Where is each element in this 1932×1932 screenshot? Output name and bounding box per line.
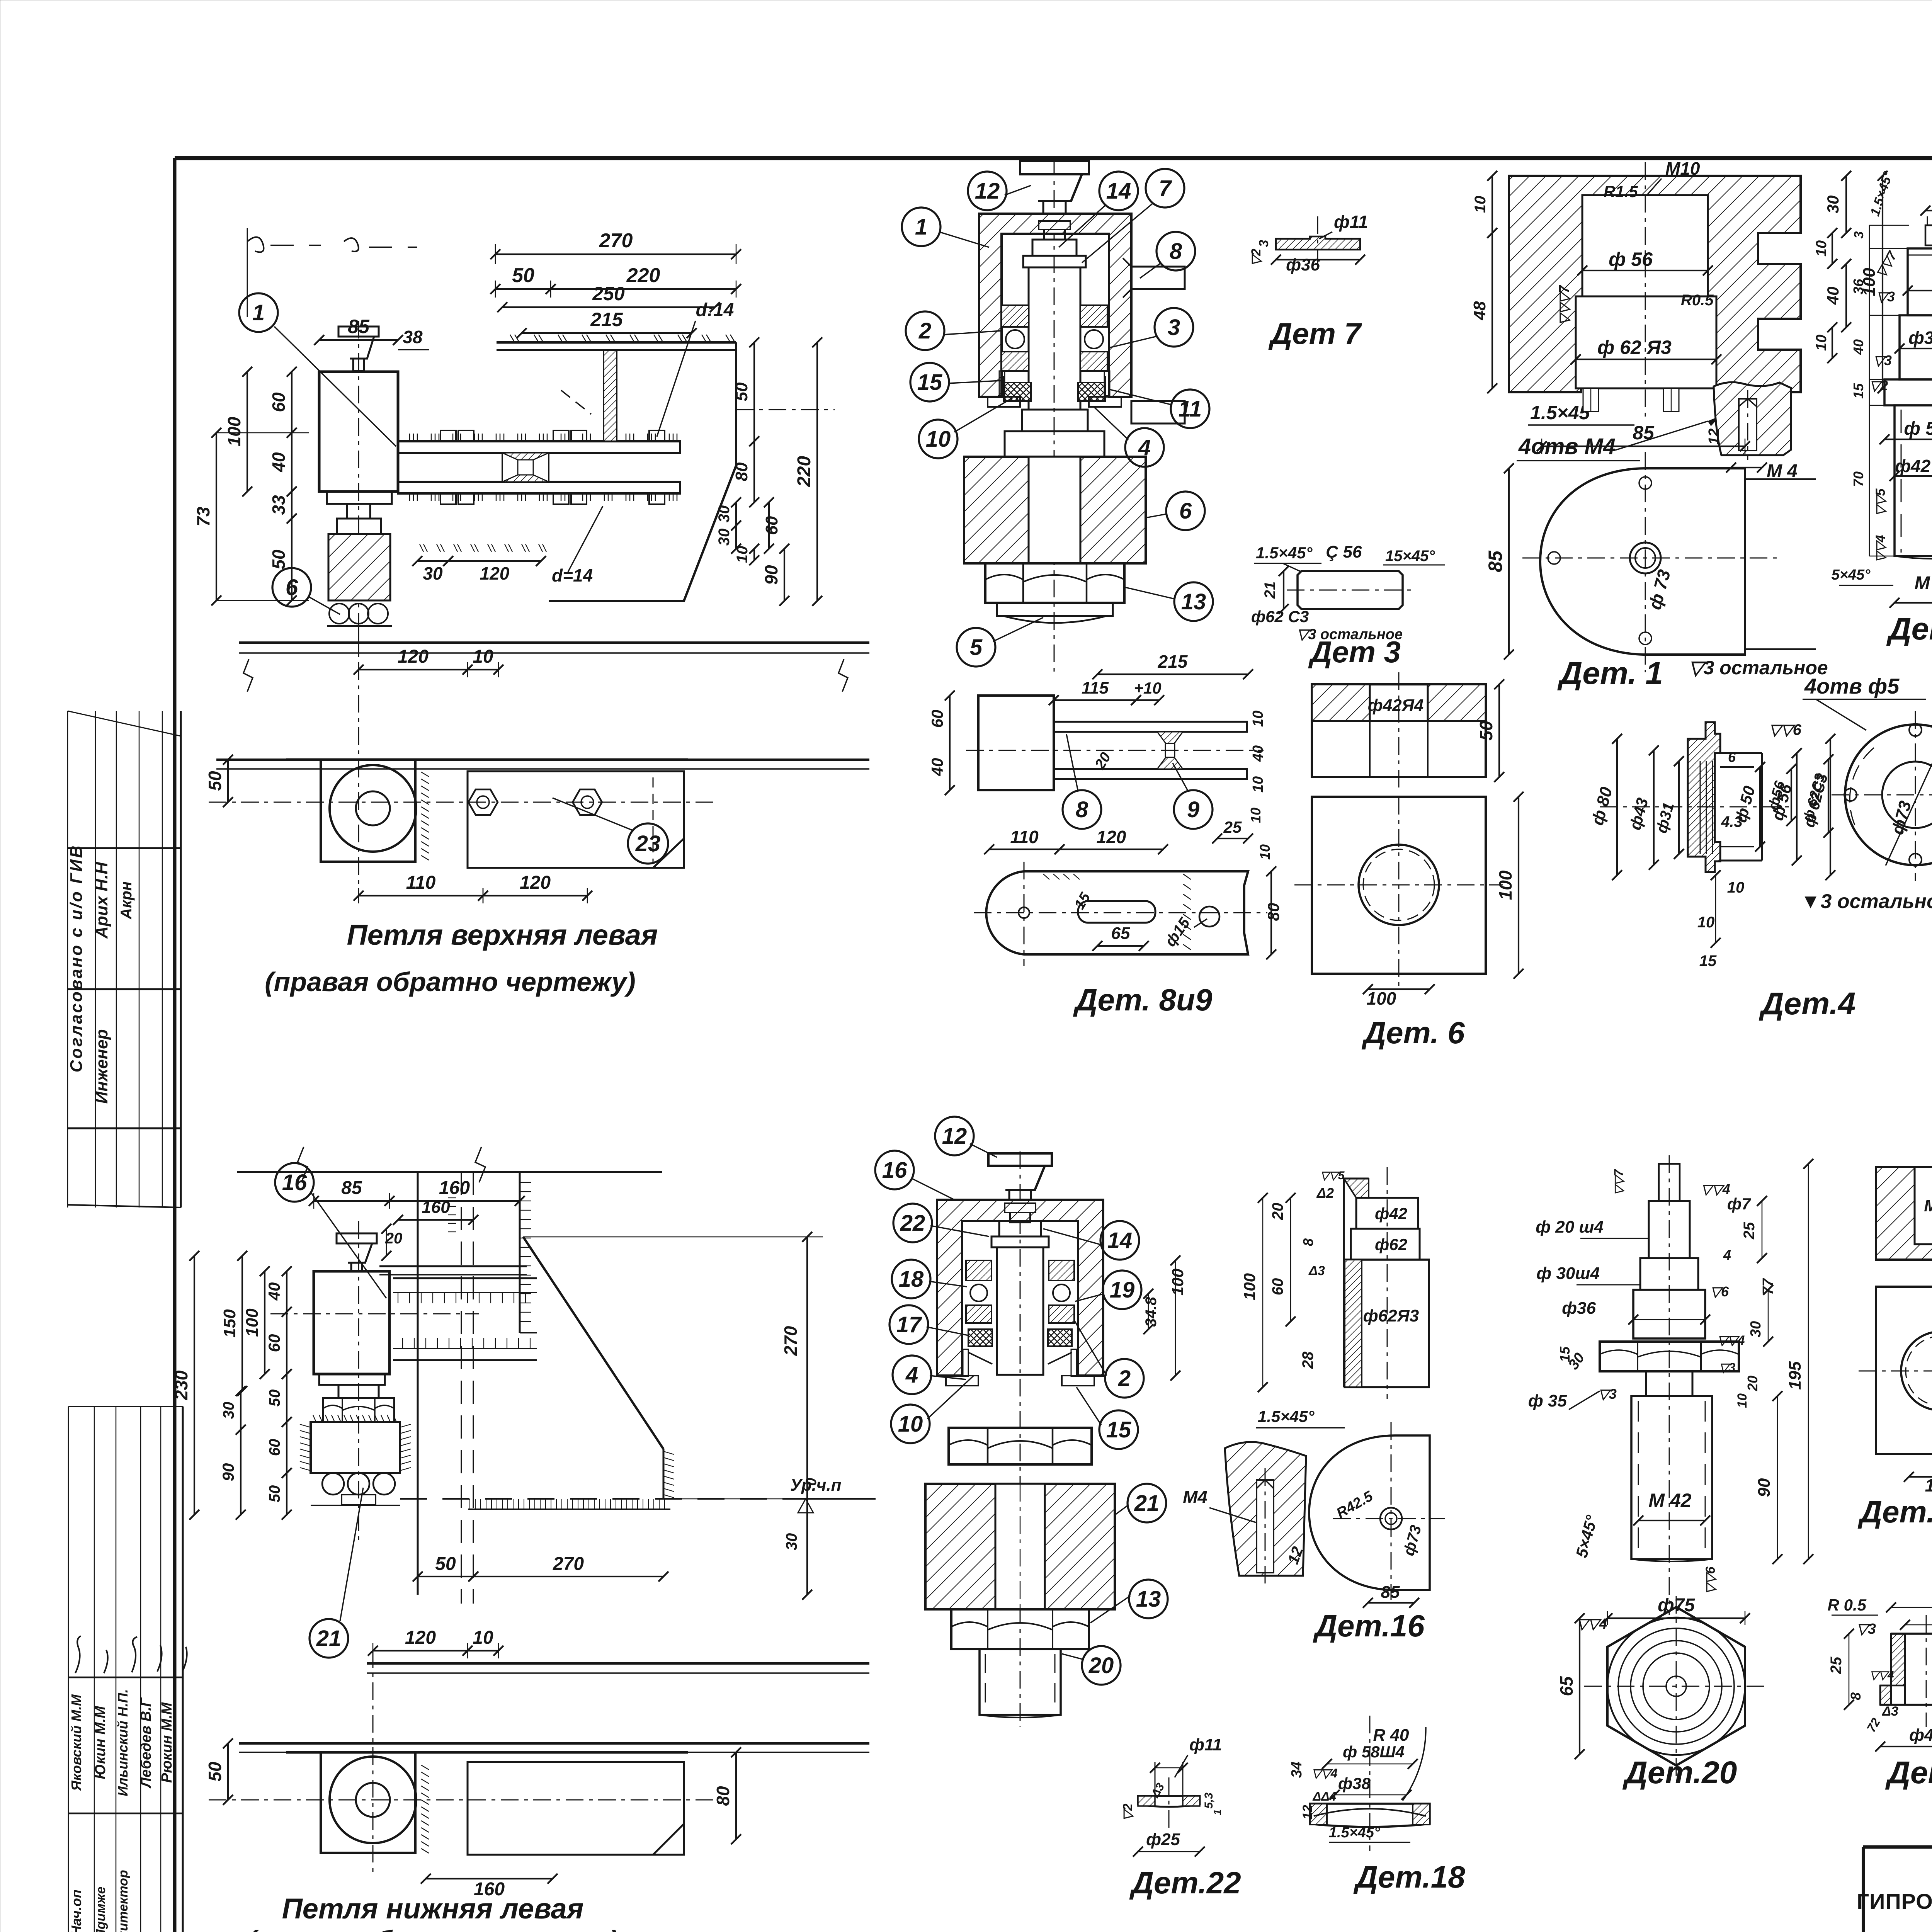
callout 21 <box>310 1619 348 1658</box>
svg-text:30: 30 <box>716 529 733 546</box>
rail weld ticks <box>410 434 677 501</box>
view: part Дет.21 nut section <box>1876 1167 1932 1260</box>
svg-text:▽3: ▽3 <box>1876 289 1895 304</box>
svg-text:34.8: 34.8 <box>1143 1296 1160 1327</box>
svg-text:40: 40 <box>1250 745 1266 762</box>
svg-text:ф36: ф36 <box>1908 328 1932 348</box>
svg-text:30: 30 <box>783 1533 800 1551</box>
svg-text:▽3: ▽3 <box>1719 1361 1736 1374</box>
ф56 dim <box>1582 270 1708 271</box>
svg-text:Арих Н.Н: Арих Н.Н <box>92 862 111 939</box>
right dim 270 vertical <box>523 1232 823 1600</box>
svg-text:10: 10 <box>473 646 493 667</box>
svg-text:Петля нижняя левая: Петля нижняя левая <box>282 1893 584 1925</box>
svg-text:30: 30 <box>1824 196 1842 214</box>
callout 2b <box>1105 1359 1144 1398</box>
callout 15b <box>1099 1410 1138 1449</box>
ф20 section <box>1649 1201 1690 1258</box>
grooves <box>1700 761 1713 854</box>
svg-text:60: 60 <box>266 1439 283 1456</box>
floor level dashed line <box>400 1498 876 1500</box>
hex flange ф35 <box>1600 1342 1739 1371</box>
svg-text:15: 15 <box>1699 952 1717 969</box>
svg-text:160: 160 <box>439 1178 470 1198</box>
svg-text:215: 215 <box>1158 651 1188 672</box>
rails <box>393 1278 537 1360</box>
inner shaft upper <box>1023 240 1086 410</box>
beam break marks <box>243 659 253 692</box>
nut under opora <box>985 563 1124 603</box>
svg-text:ф 58Ш4: ф 58Ш4 <box>1343 1743 1405 1761</box>
svg-text:ф25: ф25 <box>1146 1830 1180 1849</box>
svg-text:ф42Я4: ф42Я4 <box>1368 696 1423 715</box>
svg-text:ф 30ш4: ф 30ш4 <box>1536 1264 1600 1283</box>
svg-text:▽2: ▽2 <box>1249 248 1264 266</box>
ф62C3 dim <box>1828 759 1829 833</box>
svg-text:150: 150 <box>220 1309 239 1338</box>
svg-text:d=14: d=14 <box>552 565 593 585</box>
svg-text:Рюкин М.М: Рюкин М.М <box>159 1702 175 1783</box>
svg-text:Дет.21: Дет.21 <box>1857 1495 1932 1529</box>
svg-text:▽2: ▽2 <box>1121 1803 1135 1821</box>
svg-text:8: 8 <box>1300 1238 1316 1246</box>
svg-text:ф38: ф38 <box>1338 1774 1371 1793</box>
inner cap <box>1005 1203 1036 1223</box>
svg-text:▽▽5: ▽▽5 <box>1873 488 1888 516</box>
inner shaft <box>992 1221 1049 1375</box>
svg-text:115: 115 <box>1082 679 1109 697</box>
floor ruler ticks <box>468 1499 670 1509</box>
callout 15 <box>910 363 949 401</box>
svg-text:Δ3: Δ3 <box>1308 1264 1325 1278</box>
callout 6 <box>1166 492 1205 530</box>
callout 5 <box>957 628 995 667</box>
callout 10 <box>919 420 957 458</box>
vertical ruler ticks on post <box>448 1182 531 1321</box>
svg-text:7: 7 <box>1159 176 1172 201</box>
svg-text:4.3: 4.3 <box>1721 813 1743 830</box>
svg-text:Дет.19: Дет.19 <box>1885 1755 1932 1790</box>
svg-text:160: 160 <box>474 1879 505 1900</box>
view: part Дет 3 (bushing cylinder) <box>1251 543 1445 626</box>
svg-text:40: 40 <box>265 1282 283 1301</box>
leader to M4 holes <box>1615 421 1708 450</box>
top stud <box>1659 1164 1680 1201</box>
view: part Дет 7 (washer section) <box>1249 212 1368 274</box>
callout 3 <box>1155 308 1193 347</box>
callout 14b <box>1100 1221 1139 1260</box>
svg-text:10: 10 <box>1813 335 1830 351</box>
svg-text:▽▽4: ▽▽4 <box>1717 1333 1745 1348</box>
svg-text:28: 28 <box>1299 1351 1316 1369</box>
svg-text:80: 80 <box>732 462 751 481</box>
svg-text:15×45°: 15×45° <box>1385 548 1435 565</box>
svg-text:М4: М4 <box>1183 1487 1207 1507</box>
washer below nut <box>997 603 1113 623</box>
svg-text:Ильинский Н.П.: Ильинский Н.П. <box>115 1689 131 1796</box>
svg-text:85: 85 <box>341 1178 362 1198</box>
view: part Дет.19 bushing section <box>1828 1586 1932 1752</box>
svg-text:40: 40 <box>269 452 289 473</box>
door beam top line <box>239 641 869 644</box>
svg-text:ф 62 Я3: ф 62 Я3 <box>1597 337 1672 358</box>
svg-text:85: 85 <box>1381 1583 1400 1602</box>
svg-text:10: 10 <box>1813 240 1830 257</box>
svg-text:▽▽5: ▽▽5 <box>1320 1169 1345 1182</box>
ф36 section <box>1633 1290 1705 1338</box>
title block <box>1857 1847 1932 1932</box>
bearings <box>966 1260 1074 1323</box>
bolts on leaf <box>468 789 602 815</box>
callout 16 <box>275 1163 314 1202</box>
ф30 section <box>1908 248 1932 315</box>
svg-text:80: 80 <box>713 1786 733 1806</box>
view: lower hinge axial section assembly <box>875 1117 1187 1727</box>
svg-text:195: 195 <box>1786 1361 1804 1390</box>
svg-text:4: 4 <box>1138 435 1151 460</box>
svg-text:10: 10 <box>926 427 951 452</box>
svg-text:120: 120 <box>480 563 510 583</box>
svg-text:30: 30 <box>423 563 443 583</box>
svg-text:6: 6 <box>1179 498 1192 524</box>
svg-text:▽6: ▽6 <box>1710 1284 1729 1299</box>
hinge leaf plate <box>286 760 688 868</box>
leaf plate <box>286 1752 688 1855</box>
view: part Дет.5 shaft <box>1832 161 1932 608</box>
svg-text:ф40: ф40 <box>1909 1726 1932 1745</box>
left dim chain <box>193 367 309 605</box>
left dims <box>1850 225 1909 556</box>
svg-text:65: 65 <box>1111 924 1130 943</box>
svg-text:R0.5: R0.5 <box>1681 292 1714 309</box>
callout 20 <box>1082 1646 1121 1685</box>
view: part Дет.21 plate <box>1859 1271 1932 1495</box>
sleeve right <box>1720 753 1762 861</box>
callout 8 <box>1156 232 1195 270</box>
R40 arc <box>1403 1727 1426 1801</box>
view: upper hinge axial section assembly <box>902 158 1213 672</box>
svg-text:8: 8 <box>1076 797 1088 822</box>
dims <box>373 1650 468 1651</box>
svg-text:50: 50 <box>266 1485 283 1503</box>
right dim chain <box>716 337 835 606</box>
callout 11 <box>1171 389 1209 428</box>
svg-text:160: 160 <box>422 1198 450 1217</box>
svg-text:30: 30 <box>1748 1321 1764 1337</box>
callout 9 <box>1174 790 1213 829</box>
svg-text:ф7: ф7 <box>1727 1195 1751 1213</box>
svg-text:30: 30 <box>716 505 733 523</box>
svg-text:33: 33 <box>269 495 289 515</box>
svg-text:Ç 56: Ç 56 <box>1326 543 1362 561</box>
svg-text:60: 60 <box>928 710 946 728</box>
svg-text:ф11: ф11 <box>1334 212 1368 232</box>
svg-text:50: 50 <box>1476 721 1496 741</box>
svg-text:12: 12 <box>975 179 1000 204</box>
ф50 flange <box>1884 379 1932 405</box>
callout 17 <box>889 1305 928 1344</box>
bolt cap on housing top <box>1039 221 1070 240</box>
svg-text:▽▽4: ▽▽4 <box>1311 1766 1337 1780</box>
svg-text:14: 14 <box>1106 179 1131 204</box>
svg-text:6: 6 <box>1728 749 1736 765</box>
svg-text:Пɡимже: Пɡимже <box>94 1886 108 1932</box>
svg-text:▽▽4: ▽▽4 <box>1873 535 1888 562</box>
left dim chain <box>171 1251 292 1520</box>
svg-text:ГИПРОТИС: ГИПРОТИС <box>1857 1889 1932 1913</box>
svg-text:21: 21 <box>1262 582 1279 599</box>
ф36 section <box>1900 315 1932 379</box>
svg-text:▽▽4: ▽▽4 <box>1870 1669 1894 1682</box>
dims top 85 160 160 20 <box>314 1200 389 1202</box>
svg-text:270: 270 <box>781 1326 801 1356</box>
callout 14 <box>1099 172 1138 210</box>
svg-text:12: 12 <box>1300 1805 1315 1820</box>
svg-text:▽▽7: ▽▽7 <box>1612 1168 1626 1195</box>
top plate under cup <box>379 1265 527 1267</box>
svg-text:60: 60 <box>269 392 289 412</box>
view: part Дет.6 plate <box>1294 792 1524 1009</box>
svg-text:5: 5 <box>970 635 983 660</box>
svg-text:60: 60 <box>265 1334 283 1352</box>
svg-text:ф75: ф75 <box>1658 1595 1695 1616</box>
svg-text:▽3: ▽3 <box>1857 1621 1876 1637</box>
svg-text:1.5×45°: 1.5×45° <box>1258 1407 1315 1425</box>
svg-text:ф62Я3: ф62Я3 <box>1363 1306 1419 1325</box>
view: upper hinge plan <box>193 228 835 657</box>
svg-text:▽2: ▽2 <box>1869 378 1888 393</box>
dim 215 <box>522 332 692 334</box>
svg-text:36: 36 <box>1850 279 1866 294</box>
svg-text:3: 3 <box>1852 231 1866 238</box>
svg-text:15: 15 <box>1106 1417 1131 1442</box>
svg-text:Яковский М.М: Яковский М.М <box>68 1694 84 1791</box>
svg-text:50: 50 <box>435 1554 456 1574</box>
85 dims <box>1542 446 1745 447</box>
svg-text:Дет.20: Дет.20 <box>1622 1755 1737 1790</box>
view: part Дет.5 end disc with 4 holes <box>1765 699 1932 881</box>
svg-text:65: 65 <box>1556 1676 1577 1696</box>
callout 13 <box>1174 582 1213 621</box>
right end vertical tick band <box>663 1449 674 1499</box>
svg-text:(правая обратно чертежу): (правая обратно чертежу) <box>265 967 636 997</box>
svg-text:70: 70 <box>1850 471 1866 487</box>
svg-text:ΔΔ4: ΔΔ4 <box>1313 1789 1337 1803</box>
gate wall hatched <box>604 350 617 441</box>
svg-text:Δ3: Δ3 <box>1881 1704 1898 1719</box>
svg-text:Дет. 6: Дет. 6 <box>1361 1015 1465 1050</box>
callout 12b <box>935 1117 974 1155</box>
view: lower hinge side view <box>205 1628 869 1900</box>
svg-text:10: 10 <box>734 546 751 563</box>
svg-text:ф62: ф62 <box>1375 1235 1407 1253</box>
svg-text:1: 1 <box>915 214 927 240</box>
svg-text:8: 8 <box>1848 1692 1864 1700</box>
bearing right <box>1080 305 1107 371</box>
welds mid <box>1157 732 1183 743</box>
grease cup top <box>1020 161 1089 215</box>
view: Дет.1 D-plan <box>1485 422 1816 672</box>
bracket with hub <box>321 1752 416 1853</box>
svg-text:10: 10 <box>473 1628 493 1648</box>
svg-text:4: 4 <box>1723 1247 1731 1263</box>
svg-text:100: 100 <box>1168 1269 1187 1296</box>
svg-text:40: 40 <box>1824 287 1842 305</box>
svg-text:120: 120 <box>398 646 429 667</box>
view: upper hinge side view <box>205 630 869 903</box>
svg-text:▽3: ▽3 <box>1598 1386 1617 1402</box>
svg-text:Архитектор: Архитектор <box>116 1870 131 1932</box>
left margin signature table (lower, rotated) <box>68 1406 187 1932</box>
svg-text:M10: M10 <box>1665 158 1700 179</box>
opora plate with edge ticks <box>300 1415 411 1473</box>
svg-text:20: 20 <box>385 1230 403 1247</box>
svg-text:Дет. 1: Дет. 1 <box>1557 656 1663 691</box>
bottom nut <box>951 1609 1089 1649</box>
gate outline right <box>549 342 736 601</box>
svg-text:Дет.18: Дет.18 <box>1353 1860 1465 1894</box>
М42 section <box>1895 476 1932 556</box>
view: part Дет.20 shaft <box>1528 1155 1813 1615</box>
svg-text:3: 3 <box>1168 315 1180 340</box>
svg-text:10: 10 <box>1248 808 1264 823</box>
hatch ticks on strap <box>1043 874 1191 950</box>
svg-text:10: 10 <box>898 1412 923 1437</box>
left dims <box>1240 1169 1345 1392</box>
svg-text:4: 4 <box>905 1362 918 1388</box>
callout 13b <box>1129 1580 1168 1618</box>
ф56 dim <box>1791 769 1792 821</box>
ф30 section <box>1640 1258 1698 1290</box>
svg-text:38: 38 <box>403 327 423 347</box>
Ур.ч.п mark <box>786 1476 876 1513</box>
bracket with hub <box>321 726 416 862</box>
scribble annotation <box>247 237 417 252</box>
upper rail <box>398 441 680 493</box>
signature scribbles <box>75 1636 187 1673</box>
view: part Дет.22 washer <box>1121 1735 1223 1857</box>
hinge body <box>314 1271 389 1374</box>
opora block <box>925 1484 1115 1609</box>
svg-text:17: 17 <box>896 1312 922 1337</box>
svg-text:ф 35: ф 35 <box>1528 1391 1567 1410</box>
svg-text:(правая обратно чертежу).: (правая обратно чертежу). <box>247 1925 626 1932</box>
svg-text:ф42: ф42 <box>1375 1204 1407 1223</box>
hinge body <box>319 372 398 492</box>
thrust washers <box>968 1329 1072 1364</box>
svg-text:90: 90 <box>1755 1478 1774 1497</box>
right bars <box>1123 258 1185 423</box>
svg-text:10: 10 <box>1727 879 1745 896</box>
view: part Дет.1 corpus section <box>1470 158 1888 450</box>
svg-text:19: 19 <box>1110 1277 1135 1303</box>
chain circles <box>311 1473 400 1505</box>
svg-text:25: 25 <box>1828 1656 1845 1674</box>
svg-text:21: 21 <box>1134 1491 1160 1516</box>
svg-text:Дет.5: Дет.5 <box>1886 611 1932 646</box>
svg-text:6: 6 <box>286 575 298 600</box>
diagonal brace <box>523 1237 663 1449</box>
left margin signature table (upper, rotated) <box>67 711 181 1207</box>
callout 8 <box>1063 790 1101 829</box>
svg-text:85: 85 <box>348 316 370 337</box>
svg-text:48: 48 <box>1470 301 1489 320</box>
svg-text:▽▽6: ▽▽6 <box>1703 1566 1718 1594</box>
slot <box>1078 901 1155 923</box>
upper cavity ф56 <box>1582 195 1708 296</box>
svg-text:13: 13 <box>1136 1587 1161 1612</box>
svg-text:22: 22 <box>900 1211 925 1236</box>
svg-text:90: 90 <box>219 1463 237 1481</box>
svg-text:d:14: d:14 <box>696 300 734 320</box>
svg-text:220: 220 <box>626 264 660 287</box>
svg-text:50: 50 <box>269 549 289 570</box>
svg-text:60: 60 <box>1269 1278 1286 1296</box>
svg-text:Согласовано с и/о ГИВ: Согласовано с и/о ГИВ <box>67 844 86 1073</box>
dims <box>989 849 1060 850</box>
svg-text:5,3: 5,3 <box>1202 1793 1215 1809</box>
callout 19 <box>1103 1270 1141 1309</box>
svg-text:М42: М42 <box>1924 1196 1932 1215</box>
view: parts Дет.8и9 side view <box>928 651 1266 829</box>
svg-text:21: 21 <box>316 1626 342 1651</box>
M10 stud <box>1925 225 1932 245</box>
callout 22 <box>893 1204 932 1242</box>
dim 85 (cup) <box>319 339 398 341</box>
rail bolts <box>437 430 668 504</box>
felt packing <box>1004 383 1105 401</box>
svg-text:2: 2 <box>1118 1366 1131 1391</box>
svg-text:270: 270 <box>553 1554 584 1574</box>
bottom dims 30 120 <box>412 506 603 585</box>
cover plates <box>946 1349 1094 1386</box>
svg-text:10: 10 <box>1735 1393 1750 1408</box>
svg-text:100: 100 <box>224 417 244 446</box>
svg-text:10: 10 <box>1250 711 1266 727</box>
svg-text:8: 8 <box>1170 239 1182 264</box>
svg-text:Нач.оп: Нач.оп <box>68 1889 84 1932</box>
view: part Дет.16 column section <box>1240 1167 1430 1428</box>
svg-text:Инженер: Инженер <box>92 1029 111 1104</box>
dim 250 <box>502 306 715 308</box>
svg-text:10: 10 <box>1472 196 1489 213</box>
svg-text:+10: +10 <box>1134 679 1161 697</box>
top edge line with breaks <box>237 1171 662 1173</box>
svg-text:270: 270 <box>599 230 633 252</box>
grease cup <box>337 1233 377 1271</box>
threaded stud bottom <box>980 1649 1061 1718</box>
svg-text:20: 20 <box>1088 1653 1114 1678</box>
svg-text:ф 56: ф 56 <box>1609 248 1653 270</box>
nut stack below body <box>319 1374 394 1422</box>
svg-text:М 42: М 42 <box>1915 573 1932 594</box>
svg-text:14: 14 <box>1107 1228 1133 1253</box>
svg-text:120: 120 <box>1097 827 1126 847</box>
svg-text:16: 16 <box>882 1158 907 1183</box>
svg-text:R 0.5: R 0.5 <box>1828 1596 1867 1614</box>
right side dims <box>1470 171 1888 393</box>
svg-text:85: 85 <box>1633 422 1655 444</box>
svg-text:230: 230 <box>171 1370 191 1400</box>
svg-text:Лебедев В.Г: Лебедев В.Г <box>138 1697 154 1789</box>
svg-text:40: 40 <box>928 758 946 777</box>
view: part Дет.16 D-plan <box>1309 1422 1445 1608</box>
callout 1 <box>902 207 940 246</box>
svg-text:73: 73 <box>193 507 213 527</box>
svg-text:30: 30 <box>220 1402 237 1419</box>
svg-text:Дет.16: Дет.16 <box>1313 1609 1425 1643</box>
callout 21b <box>1128 1484 1166 1522</box>
